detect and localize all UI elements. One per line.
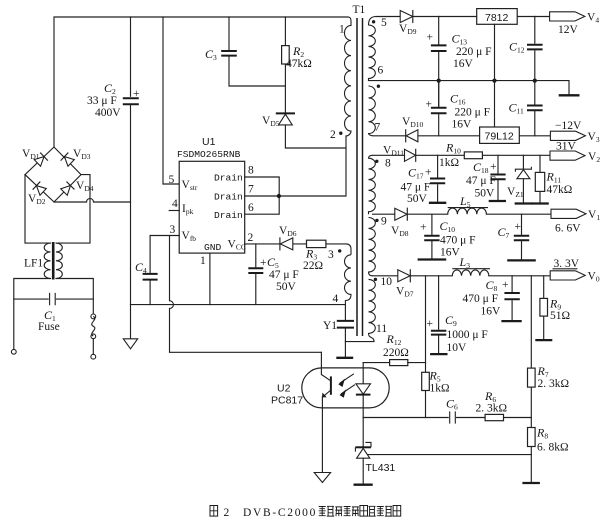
T1 pin8 label and dot <box>375 158 391 170</box>
inductor L3 label with underline <box>452 255 490 270</box>
svg-text:TL431: TL431 <box>366 462 396 474</box>
svg-text:3: 3 <box>170 224 176 236</box>
capacitor C4 label <box>135 260 147 275</box>
diode VD3 label <box>73 148 91 161</box>
diode VD4 <box>60 182 74 196</box>
capacitor C18 (47uF 50V) <box>490 155 505 200</box>
wire: U1 pin1 GND <box>209 253 211 305</box>
capacitor Y1 label <box>323 320 337 332</box>
svg-text:5: 5 <box>169 174 175 186</box>
svg-text:Drain: Drain <box>214 210 243 221</box>
capacitor C5 labels <box>260 255 299 293</box>
wire: V1 rail pin9 through VD8, L5 to V1 pointer <box>373 213 552 215</box>
ground (bar under VZ1) <box>515 202 533 204</box>
svg-text:33 μ F: 33 μ F <box>87 95 117 107</box>
diode VD6 <box>280 238 293 250</box>
diode VD1 label <box>22 148 40 161</box>
svg-text:6. 6V: 6. 6V <box>555 223 581 235</box>
svg-text:6: 6 <box>248 202 254 214</box>
wire: 12V rail pin5 to 7812 to V4 pointer <box>376 16 550 18</box>
svg-text:470 μ F: 470 μ F <box>440 235 476 247</box>
svg-text:U2: U2 <box>277 383 291 395</box>
wire: LF1 left bottom to left terminal <box>14 279 51 350</box>
svg-text:1000 μ F: 1000 μ F <box>447 329 488 341</box>
node V3 output pointer <box>550 120 599 144</box>
T1 pin6 label and dot <box>377 65 384 88</box>
capacitor C9 labels <box>445 313 488 354</box>
svg-text:47 μ F: 47 μ F <box>269 269 299 281</box>
transformer T1 secondary winding pins 6-7 <box>369 86 376 136</box>
capacitor C1 label <box>44 308 56 323</box>
zener VZ1 <box>515 155 531 202</box>
resistor R11 labels <box>546 170 573 197</box>
diode VD7 label <box>396 286 414 299</box>
wire: Vcc pin2 rail <box>245 244 351 255</box>
transformer T1 label <box>353 4 366 16</box>
LF1 label <box>24 258 43 270</box>
capacitor C13 (220uF 16V) <box>427 17 447 108</box>
resistor R12 labels <box>383 332 409 359</box>
resistor R10 labels <box>439 141 461 170</box>
capacitor C2 (bulk 33uF 400V) <box>123 17 140 305</box>
capacitor C5 (Vcc) <box>248 244 263 305</box>
wire: top DC+ rail and left drop to bridge <box>54 17 348 147</box>
svg-text:+: + <box>426 99 433 111</box>
svg-text:50V: 50V <box>475 188 496 200</box>
ground (bar under C8) <box>501 320 521 322</box>
capacitor C10 labels <box>440 219 476 259</box>
svg-text:47 μ F: 47 μ F <box>466 175 496 187</box>
transformer T1 secondary winding pins 10-11 <box>369 279 376 341</box>
svg-text:7: 7 <box>375 122 381 134</box>
svg-text:PC817: PC817 <box>271 395 303 407</box>
caption: figure 2 DVB-C2000 set-top box switching power supply schematic <box>210 506 401 520</box>
svg-text:+: + <box>502 279 509 291</box>
T1 pin7 label <box>375 122 381 134</box>
svg-text:10: 10 <box>381 276 393 288</box>
capacitor C7 label <box>498 225 510 240</box>
light arrows from LED to transistor <box>338 374 355 398</box>
svg-text:220 μ F: 220 μ F <box>455 107 491 119</box>
ground (bar under C10) <box>418 258 447 260</box>
terminal: AC left <box>11 349 16 354</box>
capacitor C18 labels <box>466 160 497 200</box>
resistor R7 labels <box>537 364 570 390</box>
ground (bar under C17) <box>429 202 446 204</box>
diode VD2 label <box>28 193 46 206</box>
svg-text:7: 7 <box>248 184 254 196</box>
wire: primary ground rail <box>131 304 346 306</box>
wire: TL431 ref rail <box>367 454 531 456</box>
svg-text:16V: 16V <box>440 247 461 259</box>
T1 pin1 label <box>339 24 345 36</box>
node V1 output pointer <box>551 209 600 235</box>
svg-text:+: + <box>425 167 432 179</box>
T1 pin10 label and dot <box>374 276 393 288</box>
svg-text:12V: 12V <box>558 24 579 36</box>
svg-text:+: + <box>260 257 267 269</box>
T1 pin5 label and dot <box>372 17 387 29</box>
svg-text:4: 4 <box>333 293 339 305</box>
fuse label <box>38 321 60 333</box>
svg-text:6. 8kΩ: 6. 8kΩ <box>537 442 569 454</box>
capacitor C17 (47uF 50V) <box>430 155 445 201</box>
svg-text:Y1: Y1 <box>323 320 337 332</box>
capacitor C12 <box>527 17 543 81</box>
LED (opto) <box>356 363 371 418</box>
diode VD3 <box>61 153 75 167</box>
capacitor C8 labels <box>463 278 509 318</box>
capacitor C16 labels <box>450 92 490 131</box>
svg-text:16V: 16V <box>481 306 502 318</box>
svg-text:9: 9 <box>381 216 387 228</box>
svg-text:400V: 400V <box>95 107 121 119</box>
wire: compensation rail C6 R6 <box>363 417 531 419</box>
svg-text:2: 2 <box>224 507 230 519</box>
capacitor C17 labels <box>401 166 432 206</box>
LF1 core bar <box>52 242 55 280</box>
diode VD10 label <box>402 116 423 129</box>
transformer T1 secondary winding pins 8-9 <box>369 155 376 214</box>
resistor R11 <box>535 155 544 202</box>
diode VD6 label <box>279 225 297 238</box>
svg-text:8: 8 <box>385 158 391 170</box>
diode VD4 label <box>76 180 94 193</box>
capacitor C2 labels <box>87 81 121 119</box>
svg-text:7812: 7812 <box>485 12 509 24</box>
diode VD11 label <box>383 145 404 158</box>
ground (bar under TL431) <box>354 484 373 486</box>
U1 designator labels <box>177 136 241 160</box>
inductor L3 <box>452 270 489 276</box>
fuse (squiggle with terminals) <box>91 314 96 359</box>
resistor R3 labels <box>303 247 323 273</box>
zener VZ1 label <box>507 186 524 199</box>
wire: bridge left AC leg down to LF1 <box>25 175 51 244</box>
svg-text:5: 5 <box>381 17 387 29</box>
wire: Vfb pin3 to C4 <box>150 236 179 273</box>
diode VD5 label <box>262 115 280 128</box>
svg-text:GND: GND <box>204 242 222 253</box>
transformer T1 secondary winding pins 9-10 <box>369 217 376 275</box>
diode VD5 (clamp) <box>276 113 346 148</box>
diode VD11 <box>405 149 416 161</box>
wire: pin5 startup from rail to U1 <box>163 17 179 184</box>
diode VD9 label <box>399 23 417 36</box>
svg-text:−12V: −12V <box>555 120 582 132</box>
svg-text:2. 3kΩ: 2. 3kΩ <box>538 378 570 390</box>
svg-text:1kΩ: 1kΩ <box>430 383 450 395</box>
capacitor C6 <box>450 411 456 423</box>
capacitor Y1 (Y-cap primary to secondary) <box>337 305 354 357</box>
transformer T1 primary winding pins 1-2 <box>345 17 352 136</box>
wire: V0 rail pin10 through VD7, L3 to V0 pointer <box>373 275 551 277</box>
diode VD2 <box>33 182 47 196</box>
diode VD8 label <box>391 225 409 238</box>
svg-text:79L12: 79L12 <box>485 131 514 143</box>
resistor R8 labels <box>536 426 569 454</box>
diode VD1 <box>34 153 48 167</box>
capacitor C13 labels <box>452 32 492 71</box>
wire: Vfb drop to optocoupler with hop over ground rail <box>170 236 322 353</box>
wire: LF1 right bottom down to fuse <box>56 279 93 314</box>
svg-text:8: 8 <box>248 165 254 177</box>
U1 pin numbers <box>169 165 255 268</box>
resistor R2 <box>282 17 290 112</box>
resistor R6 labels <box>476 389 508 415</box>
optocoupler U2 PC817 body <box>302 368 389 408</box>
inductor L5 label with underline <box>448 194 488 209</box>
resistor R9 <box>540 276 548 339</box>
svg-text:3: 3 <box>328 249 334 261</box>
U1 pin4 stub <box>169 210 179 212</box>
wire: 7812 GND down through rail to 79L12 <box>494 24 496 127</box>
svg-text:Fuse: Fuse <box>38 321 60 333</box>
regulator 79L12 <box>480 127 520 143</box>
svg-text:22Ω: 22Ω <box>303 260 323 272</box>
optocoupler U2 labels <box>271 383 303 407</box>
svg-text:51Ω: 51Ω <box>550 310 570 322</box>
svg-text:47kΩ: 47kΩ <box>286 58 312 70</box>
resistor R9 labels <box>549 297 570 323</box>
ground (bar under R9) <box>535 339 552 341</box>
svg-text:220 μ F: 220 μ F <box>456 46 492 58</box>
svg-text:47kΩ: 47kΩ <box>547 184 573 196</box>
wire: V0 raw node down through R5 column <box>425 276 427 418</box>
svg-text:50V: 50V <box>407 193 428 205</box>
T1 pin11 label <box>376 323 387 335</box>
node V2 output pointer <box>550 141 600 165</box>
svg-text:47 μ F: 47 μ F <box>401 182 431 194</box>
svg-text:2: 2 <box>248 232 254 244</box>
svg-text:+: + <box>427 32 434 44</box>
node V0 output pointer <box>550 258 600 284</box>
ground (primary triangle under opto emitter) <box>314 473 330 483</box>
svg-text:50V: 50V <box>276 281 297 293</box>
junction dots on mid rail <box>437 79 537 83</box>
capacitor C8 (470uF 16V) <box>504 276 519 320</box>
svg-text:+: + <box>427 318 434 330</box>
svg-text:Drain: Drain <box>214 173 243 184</box>
ground (bar under C9) <box>430 353 447 355</box>
capacitor C7 <box>514 214 529 259</box>
wire: secondary mid ground rail (pin6) <box>369 81 570 95</box>
svg-text:U1: U1 <box>202 136 216 148</box>
T1 pin4 label <box>333 293 339 305</box>
shunt regulator TL431 <box>355 418 371 484</box>
resistor R5 labels <box>429 369 450 395</box>
capacitor C6 label <box>446 397 458 412</box>
capacitor C1 (X-cap) <box>14 293 94 305</box>
svg-text:470 μ F: 470 μ F <box>463 293 499 305</box>
capacitor C3 label <box>205 47 217 62</box>
wire: -12V rail pin7 through VD10 to 79L12 and V3 pointer <box>373 135 550 137</box>
capacitor C16 (220uF 16V) <box>426 81 447 136</box>
resistor R10 <box>464 152 482 159</box>
resistor R12 <box>363 360 425 366</box>
transformer T1 core <box>357 18 363 336</box>
svg-text:31V: 31V <box>556 141 577 153</box>
wire: bridge DC- to C2 column <box>54 199 131 203</box>
op-amp U1 FSDMO265RNB box <box>179 161 245 253</box>
svg-text:+: + <box>133 88 140 100</box>
ground (bar under C7) <box>507 259 536 261</box>
ground (chassis bar under Y1) <box>336 357 353 359</box>
node V4 output pointer <box>550 12 600 37</box>
wire: V2 rail pin8 through VD11, R10 to V2 pointer <box>373 154 550 156</box>
ground (bar under R11) <box>531 202 549 204</box>
transistor (opto phototransistor) <box>321 352 331 471</box>
diode VD10 (points left) <box>406 130 418 142</box>
resistor R6 <box>485 414 503 420</box>
ground (bar bottom right) <box>522 482 540 484</box>
regulator 7812 <box>477 9 518 25</box>
diode VD9 <box>400 11 413 23</box>
bridge rectifier diamond wires <box>25 147 81 202</box>
junction drain bus <box>277 194 281 198</box>
svg-text:1kΩ: 1kΩ <box>439 157 459 169</box>
svg-text:16V: 16V <box>453 58 474 70</box>
svg-text:3. 3V: 3. 3V <box>554 258 580 270</box>
capacitor C12 label <box>509 40 525 55</box>
svg-text:16V: 16V <box>452 119 473 131</box>
wire: bridge right AC leg with hop over DC- wire <box>56 175 90 244</box>
svg-text:+: + <box>515 221 522 233</box>
resistor R8 <box>528 428 536 482</box>
svg-text:10V: 10V <box>447 342 468 354</box>
svg-text:LF1: LF1 <box>24 258 43 270</box>
svg-text:+: + <box>490 161 497 173</box>
capacitor C11 <box>527 81 543 136</box>
svg-text:DVB-C2000: DVB-C2000 <box>243 507 317 519</box>
inductor LF1 right winding <box>56 243 62 278</box>
U1 pin names inside <box>182 173 246 254</box>
capacitor C10 (470uF 16V) <box>420 214 440 258</box>
svg-text:2: 2 <box>330 129 336 141</box>
diode VD7 <box>398 270 411 282</box>
svg-text:T1: T1 <box>353 4 366 16</box>
capacitor C11 label <box>509 101 524 116</box>
svg-text:220Ω: 220Ω <box>383 347 409 359</box>
svg-text:1: 1 <box>200 255 206 267</box>
capacitor C3 (snubber) <box>221 17 285 86</box>
T1 pin9 label and dot <box>375 216 387 228</box>
transformer T1 secondary winding pins 5-6 <box>369 17 377 81</box>
T1 pin2 label and dot <box>330 129 342 141</box>
ground (primary, triangle) <box>123 305 137 349</box>
TL431 label <box>366 462 396 474</box>
svg-text:6: 6 <box>378 65 384 77</box>
inductor LF1 common-mode choke left winding <box>44 243 50 278</box>
transformer T1 primary winding pins 3-4 <box>345 255 352 305</box>
wire: pin11 to chassis node <box>345 341 374 343</box>
T1 pin3 label and dot <box>328 249 341 261</box>
diode VD8 <box>395 208 408 220</box>
svg-text:Drain: Drain <box>214 192 243 203</box>
resistor R2 labels <box>286 44 312 70</box>
svg-text:1: 1 <box>339 24 345 36</box>
wire: drain bus pins 8,7,6 to transformer pin2 <box>245 136 346 214</box>
resistor R3 <box>307 240 326 247</box>
resistor R5 <box>422 372 430 390</box>
svg-text:+: + <box>420 222 427 234</box>
inductor L5 <box>448 208 487 214</box>
resistor R7 <box>528 276 536 428</box>
ground (bar, top right) <box>559 94 580 96</box>
svg-text:2. 3kΩ: 2. 3kΩ <box>476 403 508 415</box>
ground (bar under C18) <box>489 200 506 202</box>
capacitor C9 (1000uF 10V) <box>427 276 447 353</box>
capacitor C4 <box>143 274 158 305</box>
svg-text:FSDMO265RNB: FSDMO265RNB <box>177 149 241 160</box>
svg-text:4: 4 <box>172 198 178 210</box>
